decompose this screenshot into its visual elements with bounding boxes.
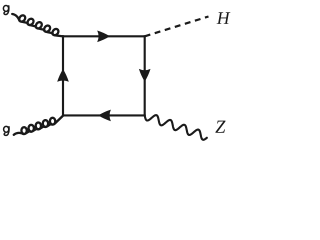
- quark loop bottom edge: [62, 114, 146, 116]
- arrow on right edge (downward): [139, 69, 151, 82]
- quark loop top edge: [62, 35, 145, 37]
- gluon g1 (top-left): [12, 14, 63, 36]
- label Z: [215, 121, 225, 133]
- arrow on bottom edge (leftward): [98, 110, 111, 122]
- gluon g2 (bottom-left): [14, 116, 63, 135]
- label H: [217, 12, 231, 24]
- arrow on top edge (rightward): [97, 31, 110, 43]
- Z boson wavy propagator: [145, 115, 207, 140]
- label g (bottom): [4, 126, 9, 135]
- quark loop left edge: [62, 35, 64, 116]
- label g (top): [3, 5, 8, 14]
- quark loop right edge: [144, 35, 146, 116]
- arrow on left edge (upward): [57, 69, 69, 82]
- Higgs dashed propagator: [145, 17, 209, 37]
